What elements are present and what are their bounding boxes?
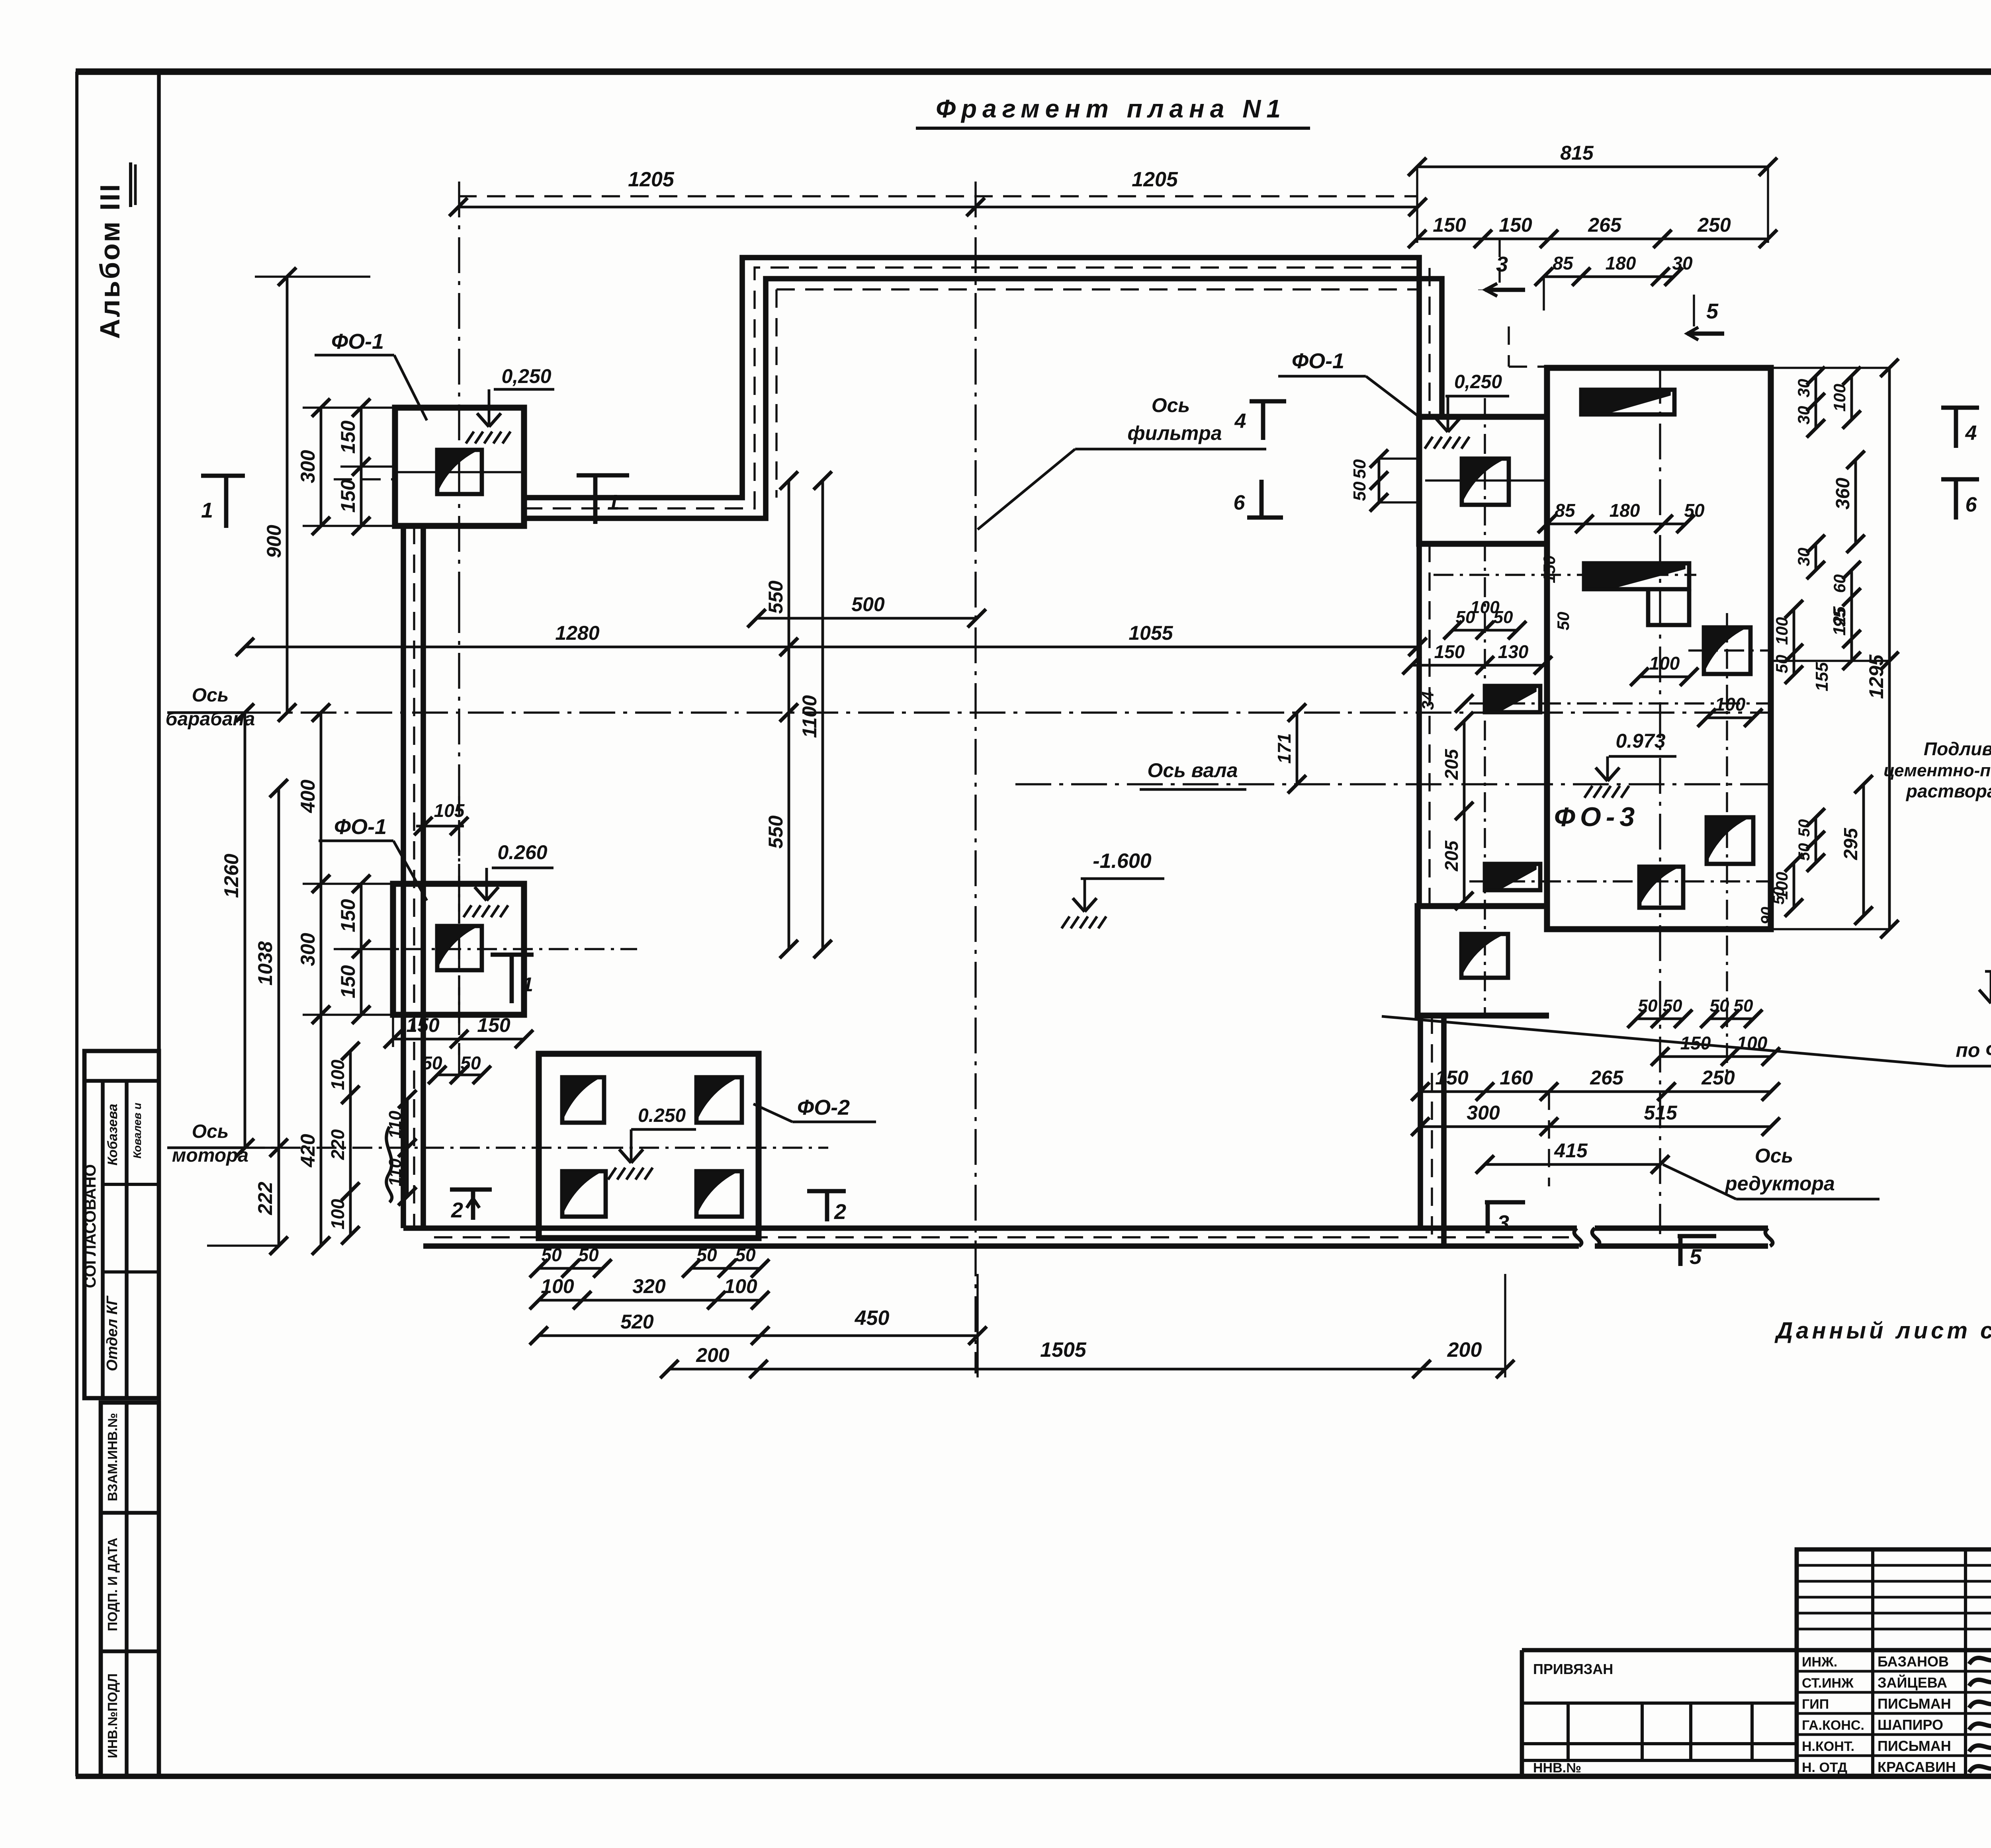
- svg-text:30: 30: [1672, 253, 1693, 273]
- svg-text:раствора М-50: раствора М-50: [1905, 781, 1991, 801]
- svg-text:150: 150: [477, 1014, 510, 1036]
- svg-text:100: 100: [1649, 653, 1680, 674]
- svg-text:150: 150: [337, 479, 359, 513]
- svg-text:155: 155: [1812, 662, 1832, 692]
- svg-text:100: 100: [1715, 694, 1746, 715]
- svg-text:200: 200: [696, 1344, 730, 1366]
- svg-text:50: 50: [1663, 996, 1682, 1016]
- svg-text:0,250: 0,250: [1454, 371, 1502, 393]
- svg-text:150: 150: [337, 899, 359, 932]
- svg-text:100: 100: [1772, 617, 1791, 645]
- svg-text:1100: 1100: [798, 695, 821, 738]
- svg-text:3: 3: [1496, 252, 1508, 276]
- svg-text:50: 50: [1638, 996, 1658, 1016]
- svg-text:100: 100: [1470, 598, 1500, 617]
- svg-text:360: 360: [1833, 478, 1854, 510]
- svg-text:ГИП: ГИП: [1802, 1697, 1829, 1712]
- svg-text:50: 50: [1350, 481, 1369, 501]
- svg-text:50: 50: [1772, 655, 1791, 674]
- svg-text:КРАСАВИН: КРАСАВИН: [1878, 1759, 1956, 1775]
- svg-text:50: 50: [735, 1244, 756, 1265]
- svg-text:0.973: 0.973: [1615, 730, 1665, 752]
- svg-text:1505: 1505: [1040, 1338, 1087, 1362]
- svg-text:295: 295: [1840, 828, 1862, 860]
- svg-text:по ФО-1: по ФО-1: [1956, 1039, 1991, 1061]
- svg-text:50: 50: [1770, 887, 1788, 905]
- svg-text:-1.600: -1.600: [1093, 850, 1152, 873]
- svg-text:ИНВ.№ПОДЛ: ИНВ.№ПОДЛ: [105, 1674, 120, 1758]
- svg-text:125: 125: [1830, 606, 1849, 636]
- svg-text:150: 150: [1540, 555, 1559, 583]
- svg-text:1: 1: [522, 973, 533, 996]
- svg-text:фильтра: фильтра: [1127, 422, 1222, 444]
- svg-text:50: 50: [1734, 996, 1753, 1016]
- svg-text:100: 100: [327, 1199, 348, 1229]
- svg-text:4: 4: [1965, 422, 1977, 445]
- svg-text:Фрагмент плана N1: Фрагмент плана N1: [936, 94, 1286, 123]
- svg-text:ПОДП. И ДАТА: ПОДП. И ДАТА: [105, 1537, 120, 1631]
- svg-text:1038: 1038: [254, 941, 276, 985]
- svg-text:200: 200: [1447, 1338, 1482, 1362]
- svg-text:150: 150: [406, 1014, 440, 1036]
- svg-text:50: 50: [696, 1244, 717, 1265]
- svg-text:105: 105: [434, 800, 465, 821]
- svg-text:265: 265: [1588, 214, 1622, 236]
- svg-text:ФО-2: ФО-2: [797, 1096, 850, 1119]
- svg-text:100: 100: [1830, 384, 1849, 412]
- svg-text:Ковалев и: Ковалев и: [131, 1103, 143, 1158]
- svg-text:ИНЖ.: ИНЖ.: [1802, 1655, 1837, 1670]
- svg-text:550: 550: [765, 580, 787, 614]
- svg-text:Отдел КГ: Отдел КГ: [104, 1295, 121, 1371]
- svg-text:6: 6: [1966, 493, 1977, 516]
- svg-text:ВЗАМ.ИНВ.№: ВЗАМ.ИНВ.№: [105, 1413, 120, 1501]
- svg-text:400: 400: [297, 779, 319, 813]
- svg-text:Ось: Ось: [1755, 1145, 1793, 1167]
- svg-text:550: 550: [765, 815, 787, 849]
- svg-text:100: 100: [327, 1059, 348, 1090]
- svg-text:Альбом III: Альбом III: [94, 183, 125, 339]
- svg-text:цементно-песчаного: цементно-песчаного: [1883, 761, 1991, 780]
- svg-text:815: 815: [1560, 142, 1594, 164]
- svg-text:205: 205: [1441, 748, 1462, 780]
- svg-text:265: 265: [1590, 1067, 1624, 1089]
- svg-text:420: 420: [297, 1134, 319, 1168]
- svg-text:300: 300: [1467, 1102, 1500, 1124]
- svg-text:110: 110: [385, 1110, 405, 1139]
- svg-text:4: 4: [1234, 410, 1246, 433]
- svg-text:150: 150: [1499, 214, 1532, 236]
- svg-text:2: 2: [834, 1200, 846, 1224]
- svg-text:34: 34: [1418, 692, 1437, 710]
- svg-text:СТ.ИНЖ: СТ.ИНЖ: [1802, 1676, 1854, 1691]
- svg-text:250: 250: [1697, 214, 1731, 236]
- svg-text:300: 300: [297, 933, 319, 966]
- svg-text:0.260: 0.260: [497, 841, 547, 863]
- svg-text:320: 320: [632, 1275, 666, 1297]
- svg-text:ФО-3: ФО-3: [1554, 802, 1639, 832]
- svg-text:180: 180: [1610, 500, 1640, 521]
- svg-text:1280: 1280: [555, 622, 599, 644]
- svg-text:30: 30: [1794, 406, 1813, 425]
- svg-text:6: 6: [1234, 491, 1246, 514]
- svg-text:ПИСЬМАН: ПИСЬМАН: [1878, 1738, 1951, 1754]
- svg-text:1: 1: [201, 498, 213, 522]
- svg-text:100: 100: [541, 1275, 574, 1297]
- svg-text:150: 150: [1433, 214, 1466, 236]
- svg-text:50: 50: [541, 1244, 562, 1265]
- svg-text:0,250: 0,250: [501, 365, 551, 387]
- svg-text:160: 160: [1500, 1067, 1533, 1089]
- svg-text:50: 50: [422, 1053, 442, 1073]
- svg-text:515: 515: [1644, 1102, 1678, 1124]
- svg-text:90: 90: [1758, 907, 1776, 925]
- svg-text:ШАПИРО: ШАПИРО: [1878, 1717, 1943, 1733]
- svg-text:2: 2: [451, 1198, 463, 1222]
- svg-text:1: 1: [607, 490, 619, 514]
- svg-text:Ось: Ось: [192, 685, 229, 706]
- svg-text:30: 30: [1794, 548, 1813, 567]
- svg-text:ФО-1: ФО-1: [1292, 349, 1344, 373]
- svg-text:250: 250: [1701, 1067, 1735, 1089]
- svg-text:100: 100: [724, 1275, 757, 1297]
- svg-text:30: 30: [1794, 379, 1813, 398]
- svg-text:150: 150: [337, 420, 359, 454]
- svg-text:ГА.КОНС.: ГА.КОНС.: [1802, 1718, 1864, 1733]
- svg-text:205: 205: [1441, 840, 1462, 871]
- svg-text:редуктора: редуктора: [1724, 1172, 1835, 1195]
- svg-text:150: 150: [1434, 641, 1465, 662]
- svg-text:1205: 1205: [1132, 168, 1178, 191]
- svg-text:50: 50: [1350, 459, 1369, 479]
- svg-text:1260: 1260: [220, 854, 243, 898]
- svg-text:5: 5: [1690, 1245, 1702, 1269]
- svg-text:ННВ.№: ННВ.№: [1533, 1760, 1581, 1776]
- svg-text:150: 150: [1435, 1067, 1469, 1089]
- svg-text:50: 50: [1554, 612, 1572, 631]
- svg-text:СОГЛАСОВАНО: СОГЛАСОВАНО: [82, 1164, 99, 1288]
- svg-text:ПИСЬМАН: ПИСЬМАН: [1878, 1696, 1951, 1712]
- svg-text:5: 5: [1706, 299, 1719, 323]
- svg-text:Ось: Ось: [1152, 394, 1190, 416]
- svg-text:1205: 1205: [628, 168, 675, 191]
- svg-text:50: 50: [460, 1053, 481, 1073]
- svg-text:Данный лист см. совместно с ли: Данный лист см. совместно с листами 24,2…: [1774, 1318, 1991, 1344]
- svg-text:220: 220: [327, 1129, 348, 1160]
- svg-text:60: 60: [1830, 574, 1849, 593]
- svg-text:1055: 1055: [1128, 622, 1173, 644]
- svg-text:150: 150: [337, 965, 359, 998]
- svg-text:500: 500: [851, 593, 885, 615]
- svg-text:180: 180: [1606, 253, 1636, 273]
- svg-text:85: 85: [1553, 253, 1574, 273]
- svg-text:85: 85: [1555, 500, 1576, 521]
- svg-text:Ось: Ось: [192, 1121, 229, 1142]
- svg-text:БАЗАНОВ: БАЗАНОВ: [1878, 1653, 1949, 1670]
- svg-text:50: 50: [1710, 996, 1729, 1016]
- svg-text:ЗАЙЦЕВА: ЗАЙЦЕВА: [1878, 1674, 1947, 1691]
- svg-text:50: 50: [1795, 819, 1813, 837]
- svg-text:3: 3: [1497, 1211, 1509, 1235]
- svg-text:Н. ОТД: Н. ОТД: [1802, 1760, 1847, 1775]
- svg-text:ФО-1: ФО-1: [331, 330, 384, 354]
- svg-text:300: 300: [297, 450, 319, 483]
- svg-text:171: 171: [1274, 733, 1295, 764]
- svg-text:450: 450: [855, 1307, 890, 1330]
- svg-text:50: 50: [578, 1244, 599, 1265]
- svg-text:Подливка из: Подливка из: [1924, 738, 1991, 759]
- svg-text:ПРИВЯЗАН: ПРИВЯЗАН: [1533, 1661, 1613, 1677]
- svg-text:130: 130: [1498, 641, 1529, 662]
- svg-text:Н.КОНТ.: Н.КОНТ.: [1802, 1739, 1854, 1754]
- svg-text:415: 415: [1554, 1139, 1588, 1162]
- svg-text:Ось вала: Ось вала: [1147, 759, 1238, 781]
- svg-text:50: 50: [1684, 500, 1705, 521]
- svg-text:ФО-1: ФО-1: [334, 815, 387, 839]
- svg-text:Кобазева: Кобазева: [105, 1104, 120, 1165]
- svg-text:520: 520: [620, 1311, 654, 1333]
- svg-text:0.250: 0.250: [638, 1105, 686, 1126]
- svg-text:900: 900: [263, 525, 285, 558]
- svg-text:222: 222: [254, 1182, 276, 1215]
